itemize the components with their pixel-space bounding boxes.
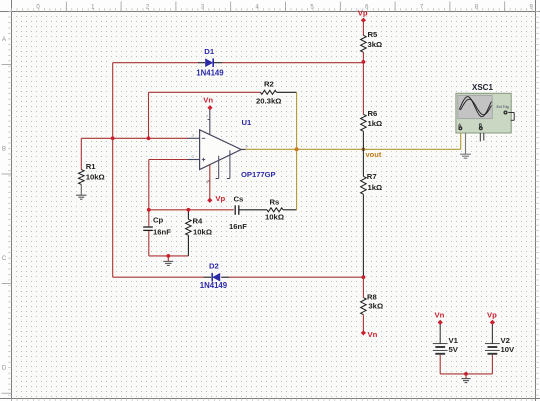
svg-text:10kΩ: 10kΩ — [86, 173, 105, 182]
svg-text:R1: R1 — [86, 162, 97, 171]
svg-text:Vn: Vn — [203, 96, 213, 105]
svg-text:vout: vout — [366, 150, 382, 159]
svg-text:D2: D2 — [209, 262, 219, 271]
svg-text:R6: R6 — [368, 109, 378, 118]
svg-text:1kΩ: 1kΩ — [368, 183, 383, 192]
svg-text:10V: 10V — [501, 345, 516, 354]
svg-text:R4: R4 — [193, 216, 204, 225]
svg-text:D1: D1 — [204, 47, 215, 56]
svg-text:B: B — [2, 147, 6, 153]
svg-text:10kΩ: 10kΩ — [265, 213, 284, 222]
svg-text:R2: R2 — [264, 80, 274, 89]
svg-text:5V: 5V — [449, 345, 459, 354]
svg-text:U1: U1 — [242, 118, 253, 127]
svg-text:16nF: 16nF — [229, 222, 247, 231]
svg-text:3kΩ: 3kΩ — [368, 40, 383, 49]
svg-text:V2: V2 — [501, 336, 510, 345]
svg-text:1N4149: 1N4149 — [200, 281, 228, 290]
svg-text:1N4149: 1N4149 — [196, 68, 224, 77]
svg-text:V1: V1 — [449, 336, 459, 345]
svg-text:Vn: Vn — [368, 330, 378, 339]
svg-text:16nF: 16nF — [153, 227, 171, 236]
svg-text:R5: R5 — [368, 30, 379, 39]
svg-text:Rs: Rs — [270, 198, 280, 207]
svg-text:R7: R7 — [367, 172, 377, 181]
svg-text:Vp: Vp — [358, 8, 368, 17]
svg-text:Ext Trig: Ext Trig — [497, 105, 509, 109]
svg-text:XSC1: XSC1 — [472, 83, 493, 92]
svg-text:A: A — [2, 37, 6, 43]
svg-text:Vn: Vn — [435, 310, 445, 319]
svg-text:20.3kΩ: 20.3kΩ — [256, 97, 281, 106]
svg-text:C: C — [2, 256, 7, 262]
svg-text:Vp: Vp — [215, 194, 225, 203]
svg-text:Cs: Cs — [234, 195, 244, 204]
svg-text:R8: R8 — [367, 293, 378, 302]
svg-text:1kΩ: 1kΩ — [368, 119, 383, 128]
svg-text:3kΩ: 3kΩ — [368, 302, 383, 311]
svg-text:D: D — [2, 366, 7, 372]
svg-text:Cp: Cp — [153, 216, 164, 225]
svg-text:10kΩ: 10kΩ — [193, 227, 212, 236]
svg-text:Vp: Vp — [487, 310, 497, 319]
svg-text:OP177GP: OP177GP — [241, 170, 276, 179]
